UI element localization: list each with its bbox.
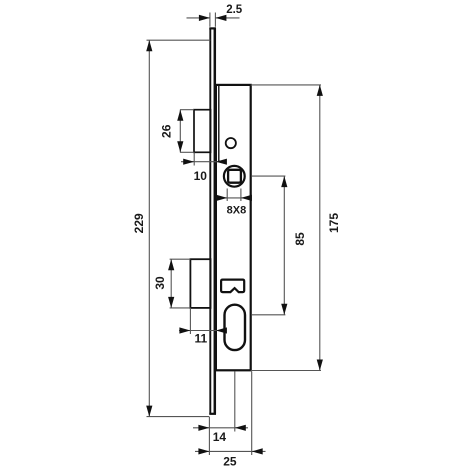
dimension 14 (backset) [193,372,248,456]
svg-text:10: 10 [194,169,208,183]
dimension 8X8 (spindle square) [216,189,252,217]
svg-text:175: 175 [327,213,341,233]
spindle square 8x8 [228,170,241,183]
svg-text:229: 229 [132,213,146,233]
cylinder oval hole [225,305,246,350]
dimension 25 (case depth) [195,372,266,469]
svg-text:8X8: 8X8 [227,205,247,217]
dimension 30 (deadbolt height) [153,259,174,308]
svg-text:30: 30 [153,276,167,290]
deadbolt bump (30) [170,259,211,308]
svg-text:85: 85 [293,232,307,246]
latch bump (26) [180,110,211,153]
faceplate [209,28,216,414]
svg-text:11: 11 [194,332,207,346]
dimension 229 (left overall) [132,40,210,416]
svg-text:2.5: 2.5 [226,4,243,16]
svg-text:25: 25 [223,454,237,468]
dimension 85 (spindle to cylinder) [252,176,307,315]
dimension 26 (latch height) [160,110,184,153]
upper hole [226,138,236,148]
spindle follower circle [224,166,245,187]
svg-text:14: 14 [213,430,227,444]
svg-text:26: 26 [160,124,174,138]
dimension 10 (latch projection) [181,152,227,183]
lock body case [216,85,251,370]
dimension 2.5 (faceplate thickness) [187,4,243,27]
dimension 11 (deadbolt projection) [179,308,227,346]
latch cutout notch [221,280,244,293]
dimension 175 (case height) [251,85,341,371]
